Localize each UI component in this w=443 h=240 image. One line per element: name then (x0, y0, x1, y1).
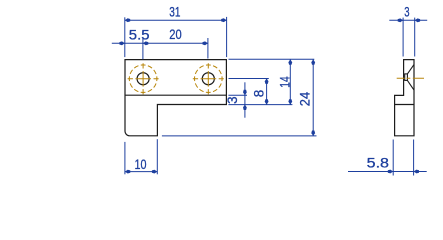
dim 3 right: upper outside arrow (243, 90, 247, 95)
hole H1 circle (137, 73, 149, 85)
right dims: extension line from step edge (228, 94, 247, 96)
side view: hole centerline (397, 77, 424, 79)
front view: thickness step edge (125, 94, 226, 96)
right dims: extension line from part bottom edge (162, 135, 317, 137)
dim 5.5/20: arrow at 142.9 (143, 41, 148, 45)
hole H1 centerline horizontal (128, 78, 159, 80)
dim 8: upper arrow (265, 79, 269, 84)
dim 10: extension line right (156, 139, 158, 174)
side view: part outline (395, 60, 414, 136)
hole H2 circle (202, 73, 214, 85)
svg-text:3: 3 (225, 96, 240, 104)
side view: countersink lower cone edge (407, 80, 414, 90)
dim 14: lower arrow (288, 99, 292, 104)
right dims: extension line from part top edge (229, 58, 315, 60)
svg-text:24: 24 (297, 91, 312, 106)
dim 5.8: dimension line (348, 171, 427, 173)
dim 3 side view top: right outside arrow (415, 18, 420, 22)
hole H2 countersink dashed circle (195, 65, 223, 93)
dim 3 right: lower outside arrow (243, 105, 247, 110)
dim 5.8: left outside arrow (388, 170, 393, 174)
dim 24: lower arrow (311, 131, 315, 136)
dim 8: dimension line (266, 79, 268, 105)
svg-text:8: 8 (251, 90, 266, 98)
dim 3 side view top: extension line right (414, 18, 416, 57)
dim 20: right arrow (203, 41, 208, 45)
right dims: extension line from hole centerline (229, 78, 269, 80)
dim 14: upper arrow (288, 59, 292, 64)
dim 5.5: outside arrow at left (119, 41, 124, 45)
dim 31: left arrow (125, 18, 130, 22)
dim 5.8: extension line right (413, 140, 415, 176)
svg-text:31: 31 (169, 4, 180, 19)
dim 3 right: dimension line with outside tails (244, 82, 246, 117)
dim 10: extension line left (124, 142, 126, 174)
dim 3 side view top: left outside arrow (398, 18, 403, 22)
svg-text:20: 20 (169, 27, 181, 42)
dim 31: extension line left (124, 17, 126, 57)
side view: countersink upper cone edge (407, 65, 414, 74)
dim 31: dimension line (125, 19, 227, 21)
side view: bar bottom edge (395, 104, 414, 106)
dim 5.5/20: extension line mid (142, 38, 144, 59)
dim 20: extension line right (207, 38, 209, 59)
dim 10: right arrow (152, 170, 157, 174)
hole H2 centerline horizontal (193, 78, 224, 80)
dim 24: upper arrow (311, 59, 315, 64)
dim 3 side view top: extension line left (402, 18, 404, 57)
hole H1 centerline vertical (142, 63, 144, 94)
hole H2 centerline vertical (207, 63, 209, 94)
hole H1 countersink dashed circle (129, 65, 157, 93)
dim 10: left arrow (125, 170, 130, 174)
svg-text:5.8: 5.8 (367, 155, 389, 170)
dim 31: right arrow (221, 18, 226, 22)
front view: part outline (125, 60, 226, 136)
svg-text:3: 3 (404, 4, 409, 19)
svg-text:14: 14 (277, 76, 292, 88)
dim 8: lower arrow (265, 99, 269, 104)
dim 24: dimension line (312, 59, 314, 135)
dim 3 side view top: dimension line (389, 19, 427, 21)
dim 14: dimension line (289, 59, 291, 104)
side view: hole bore (405, 74, 408, 81)
dim 5.5/20: dimension line (112, 42, 208, 44)
dim 10: dimension line (125, 171, 157, 173)
svg-text:5.5: 5.5 (129, 27, 150, 42)
dim 5.8: right outside arrow (414, 170, 419, 174)
dim 5.8: extension line left (392, 140, 394, 176)
dim 31: extension line right (226, 17, 228, 57)
right dims: extension line from bar bottom edge (228, 104, 292, 106)
svg-text:10: 10 (135, 157, 147, 172)
